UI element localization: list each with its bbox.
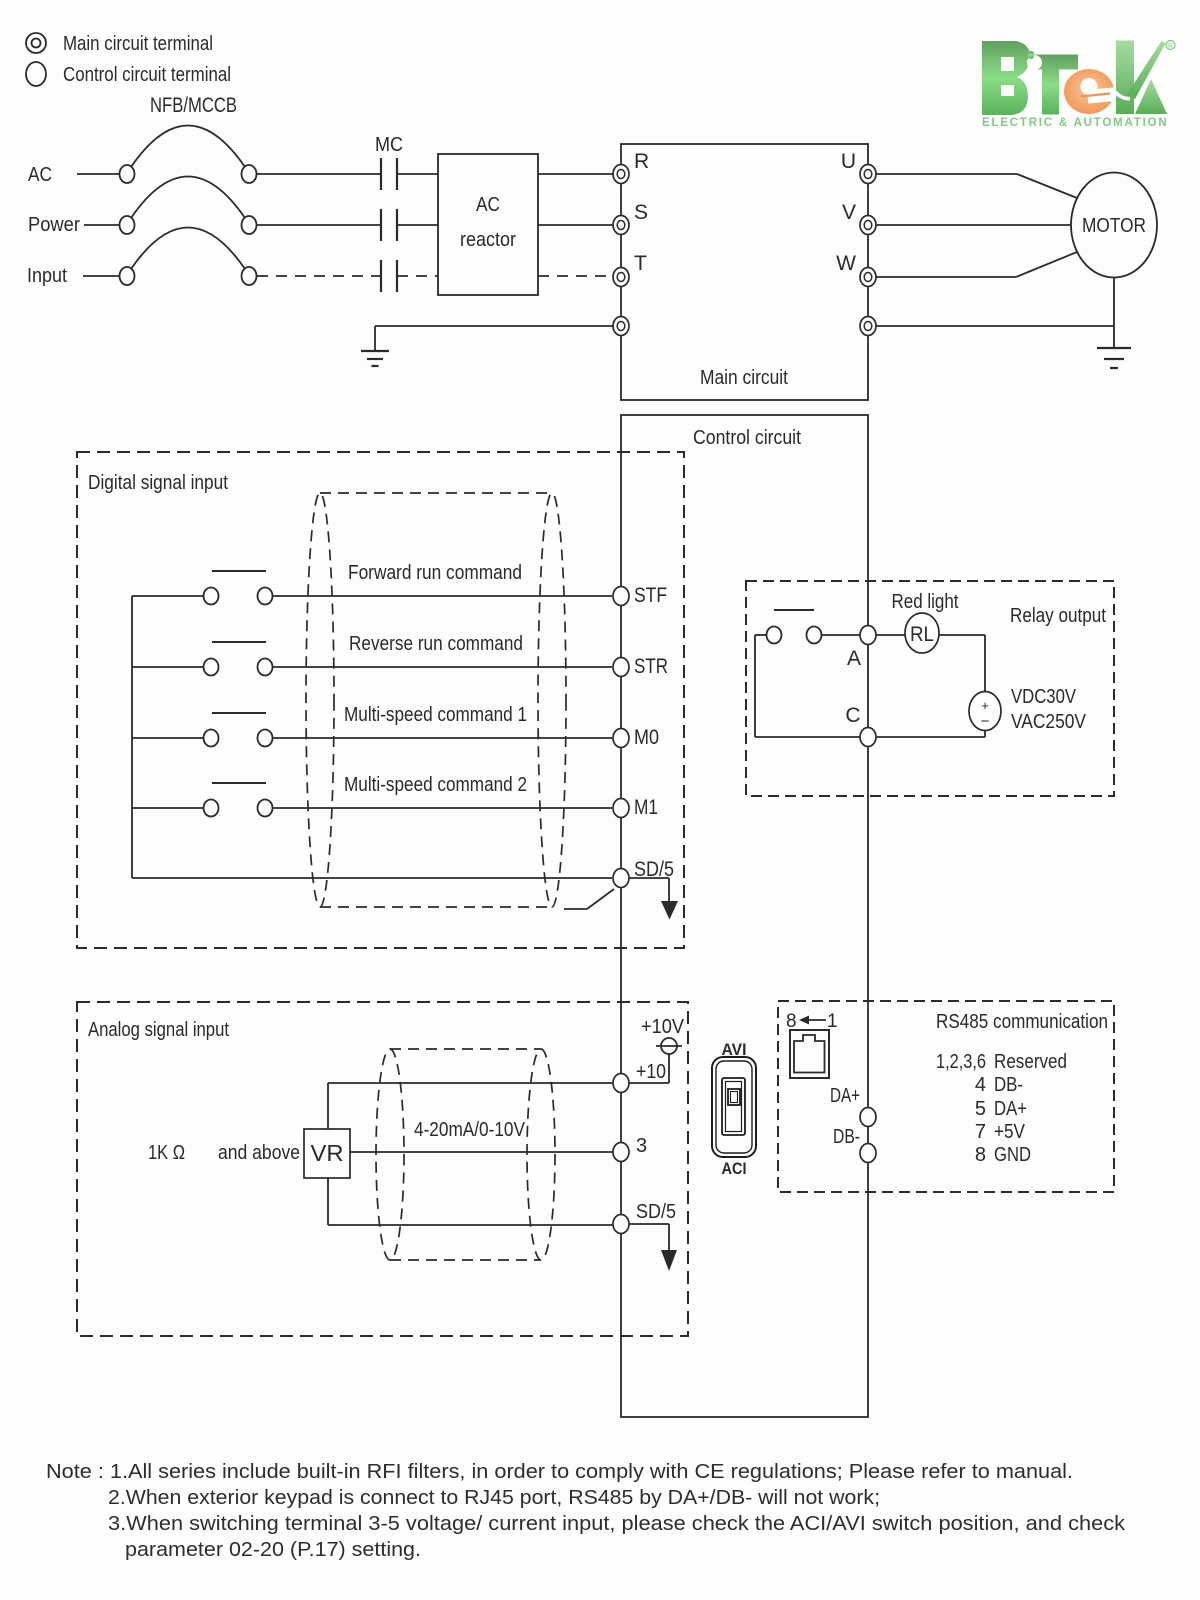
svg-text:Multi-speed command 1: Multi-speed command 1 [344, 704, 527, 726]
svg-text:R: R [1168, 43, 1173, 50]
svg-text:RS485 communication: RS485 communication [936, 1011, 1108, 1033]
svg-text:NFB/MCCB: NFB/MCCB [150, 94, 237, 117]
svg-text:Digital signal input: Digital signal input [88, 472, 228, 494]
svg-text:+10V: +10V [641, 1016, 685, 1038]
svg-text:1K Ω: 1K Ω [148, 1142, 185, 1164]
svg-text:U: U [841, 150, 856, 173]
svg-text:C: C [845, 704, 860, 727]
svg-text:AVI: AVI [722, 1040, 747, 1059]
svg-text:VR: VR [311, 1140, 344, 1166]
svg-text:DA+: DA+ [994, 1098, 1027, 1120]
svg-text:Power: Power [28, 214, 80, 236]
svg-text:Multi-speed command 2: Multi-speed command 2 [344, 774, 527, 796]
svg-text:DB-: DB- [833, 1126, 860, 1148]
svg-text:1: 1 [827, 1011, 838, 1032]
svg-text:Reserved: Reserved [994, 1051, 1067, 1073]
svg-text:2.When exterior keypad is conn: 2.When exterior keypad is connect to RJ4… [108, 1486, 880, 1509]
svg-text:AC: AC [28, 164, 52, 186]
svg-text:MC: MC [375, 134, 403, 156]
svg-text:and above: and above [218, 1142, 300, 1164]
svg-text:5: 5 [975, 1098, 986, 1120]
svg-text:+: + [981, 698, 989, 713]
svg-text:W: W [836, 252, 856, 275]
svg-text:7: 7 [975, 1121, 986, 1143]
svg-text:R: R [634, 150, 649, 173]
svg-text:+5V: +5V [994, 1121, 1026, 1143]
svg-text:Forward run command: Forward run command [348, 562, 522, 584]
svg-text:−: − [981, 713, 990, 730]
svg-text:DA+: DA+ [830, 1085, 860, 1107]
svg-text:M0: M0 [634, 726, 659, 749]
svg-text:4-20mA/0-10V: 4-20mA/0-10V [414, 1119, 526, 1141]
svg-text:Relay output: Relay output [1010, 605, 1106, 627]
svg-text:T: T [634, 252, 647, 275]
svg-text:Control circuit: Control circuit [693, 427, 801, 449]
svg-text:Reverse run command: Reverse run command [349, 633, 523, 655]
svg-text:GND: GND [994, 1144, 1031, 1166]
svg-text:DB-: DB- [994, 1074, 1023, 1096]
svg-text:Input: Input [27, 265, 67, 287]
svg-text:RL: RL [910, 623, 934, 646]
svg-text:VAC250V: VAC250V [1011, 711, 1087, 733]
svg-text:3.When switching terminal 3-5: 3.When switching terminal 3-5 voltage/ c… [108, 1512, 1126, 1535]
svg-text:ACI: ACI [722, 1159, 747, 1178]
svg-text:A: A [847, 647, 861, 670]
svg-text:Control circuit terminal: Control circuit terminal [63, 64, 231, 86]
svg-text:SD/5: SD/5 [636, 1201, 676, 1223]
svg-text:MOTOR: MOTOR [1082, 214, 1146, 237]
svg-text:Analog signal input: Analog signal input [88, 1019, 229, 1041]
svg-text:parameter 02-20 (P.17) setting: parameter 02-20 (P.17) setting. [125, 1538, 421, 1561]
svg-text:+10: +10 [636, 1061, 666, 1083]
svg-text:V: V [842, 201, 856, 224]
svg-text:Note : 1.All series include bu: Note : 1.All series include built-in RFI… [46, 1460, 1073, 1483]
svg-text:Main circuit: Main circuit [700, 367, 788, 389]
svg-text:STR: STR [634, 655, 668, 678]
svg-text:Main circuit terminal: Main circuit terminal [63, 33, 213, 55]
svg-text:4: 4 [975, 1074, 986, 1096]
svg-text:8: 8 [975, 1144, 986, 1166]
svg-text:VDC30V: VDC30V [1011, 686, 1077, 708]
svg-text:reactor: reactor [460, 229, 516, 251]
svg-text:8: 8 [786, 1011, 797, 1032]
svg-text:AC: AC [476, 194, 500, 216]
svg-text:S: S [634, 201, 648, 224]
svg-text:STF: STF [634, 584, 667, 607]
svg-text:Red light: Red light [892, 591, 959, 613]
svg-text:M1: M1 [634, 796, 658, 819]
svg-text:SD/5: SD/5 [634, 858, 674, 881]
svg-text:ELECTRIC & AUTOMATION: ELECTRIC & AUTOMATION [982, 117, 1168, 129]
svg-text:3: 3 [636, 1135, 647, 1157]
svg-text:1,2,3,6: 1,2,3,6 [936, 1051, 986, 1073]
